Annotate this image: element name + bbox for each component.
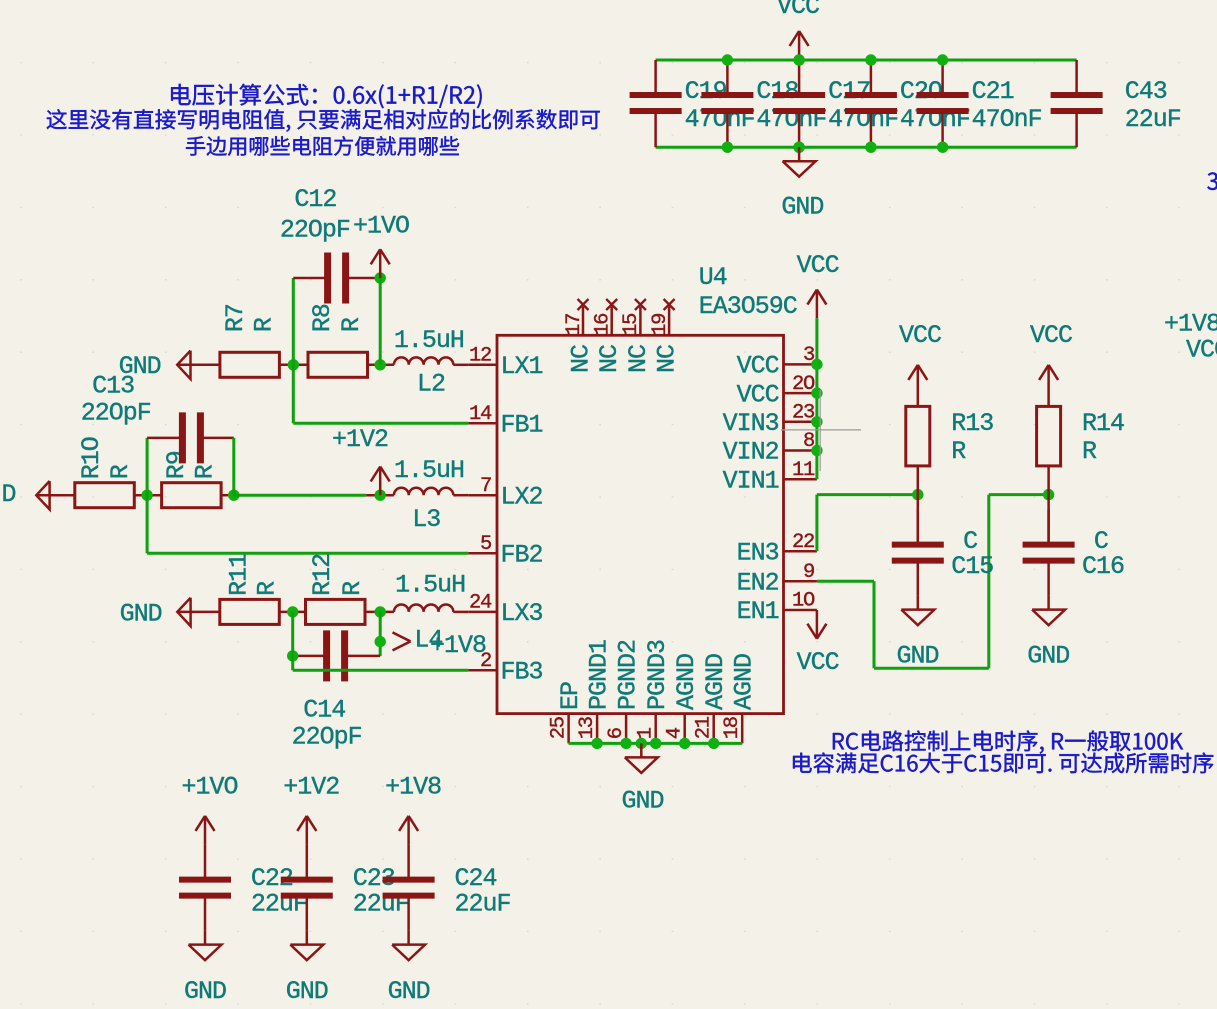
junction bbox=[811, 387, 822, 398]
resistor R10 bbox=[75, 483, 135, 508]
wire C13 branch right bbox=[232, 438, 235, 495]
wire FB2 net bbox=[146, 495, 149, 553]
svg-text:VCC: VCC bbox=[1186, 336, 1217, 365]
pin 22 EN3 bbox=[784, 550, 817, 553]
svg-text:R: R bbox=[252, 581, 281, 596]
power +1V8 bottom bbox=[407, 816, 410, 845]
pin 2 FB3 bbox=[468, 669, 497, 672]
power +1V0 bottom bbox=[204, 816, 207, 845]
junction bbox=[793, 54, 804, 65]
svg-text:EN1: EN1 bbox=[737, 597, 779, 626]
svg-text:9: 9 bbox=[803, 561, 814, 584]
capacitor C21 470nF bbox=[941, 60, 944, 95]
junction bbox=[591, 738, 602, 749]
power +1V8 arrow bbox=[393, 632, 411, 641]
svg-text:LX2: LX2 bbox=[501, 482, 543, 511]
junction bbox=[937, 54, 948, 65]
pin 16 NC bbox=[610, 307, 613, 336]
svg-text:R7: R7 bbox=[221, 304, 250, 332]
svg-text:VIN1: VIN1 bbox=[723, 466, 779, 495]
pin 23 VIN3 bbox=[784, 421, 817, 424]
svg-text:5: 5 bbox=[480, 533, 491, 556]
svg-text:R11: R11 bbox=[225, 554, 254, 596]
wire bbox=[221, 494, 234, 497]
capacitor C16 bbox=[1047, 510, 1050, 545]
svg-text:GND: GND bbox=[120, 599, 162, 628]
resistor R13 bbox=[906, 406, 930, 466]
junction node R14-C16 bbox=[1043, 489, 1054, 500]
pin 1 PGND3 bbox=[654, 714, 657, 744]
svg-text:1: 1 bbox=[634, 727, 657, 739]
svg-text:AGND: AGND bbox=[701, 654, 730, 710]
svg-text:NC: NC bbox=[624, 345, 653, 373]
ground GND row1 arrow bbox=[177, 364, 220, 367]
wire FB1 net bbox=[292, 365, 295, 424]
svg-text:EA3O59C: EA3O59C bbox=[699, 292, 797, 321]
svg-text:C14: C14 bbox=[303, 695, 345, 724]
svg-text:C43: C43 bbox=[1125, 77, 1167, 106]
svg-text:GND: GND bbox=[388, 977, 430, 1006]
svg-text:VCC: VCC bbox=[737, 380, 779, 409]
svg-text:+1V2: +1V2 bbox=[332, 425, 388, 454]
ground GND below C15 bbox=[917, 596, 920, 610]
junction bbox=[650, 738, 661, 749]
pin 8 VIN2 bbox=[784, 449, 817, 452]
svg-text:PGND2: PGND2 bbox=[613, 640, 642, 710]
svg-text:R: R bbox=[951, 437, 966, 466]
junction bbox=[708, 738, 719, 749]
pin 9 EN2 bbox=[784, 580, 817, 583]
note voltage formula line2 bbox=[47, 109, 600, 132]
svg-text:1.5uH: 1.5uH bbox=[395, 571, 465, 600]
svg-text:AGND: AGND bbox=[672, 654, 701, 710]
junction node R9 out bbox=[228, 490, 239, 501]
ground GND below C16 bbox=[1047, 596, 1050, 610]
pin 6 PGND2 bbox=[625, 714, 628, 744]
pin 15 NC bbox=[639, 307, 642, 336]
svg-text:R9: R9 bbox=[162, 451, 191, 479]
svg-text:R8: R8 bbox=[308, 304, 337, 332]
svg-text:U4: U4 bbox=[699, 263, 727, 292]
junction node R7-R8 bbox=[288, 359, 299, 370]
pin 3 VCC bbox=[784, 363, 817, 366]
svg-text:C17: C17 bbox=[828, 77, 870, 106]
svg-text:16: 16 bbox=[592, 314, 615, 336]
svg-text:PGND3: PGND3 bbox=[643, 640, 672, 710]
svg-text:22OpF: 22OpF bbox=[292, 723, 362, 752]
resistor R7 bbox=[220, 352, 280, 377]
svg-text:FB2: FB2 bbox=[501, 541, 543, 570]
power +1V0 bbox=[379, 249, 382, 278]
junction bbox=[811, 416, 822, 427]
svg-text:R1O: R1O bbox=[77, 437, 106, 479]
pin 20 VCC bbox=[784, 392, 817, 395]
svg-text:FB1: FB1 bbox=[501, 411, 543, 440]
wire C12 branch right bbox=[379, 278, 382, 365]
pin 5 FB2 bbox=[468, 552, 497, 555]
wire GND bottom rail bbox=[656, 146, 1077, 149]
wire C13 branch left bbox=[146, 438, 149, 495]
svg-text:L3: L3 bbox=[412, 505, 440, 534]
capacitor C12 220pF bbox=[293, 277, 327, 280]
svg-text:R: R bbox=[250, 317, 279, 332]
svg-text:VCC: VCC bbox=[737, 352, 779, 381]
pin 10 EN1 bbox=[784, 609, 817, 612]
resistor R9 bbox=[162, 483, 222, 508]
svg-text:R: R bbox=[338, 581, 367, 596]
junction bbox=[793, 54, 804, 65]
svg-text:C18: C18 bbox=[756, 77, 798, 106]
junction bbox=[620, 738, 631, 749]
svg-text:R: R bbox=[337, 317, 366, 332]
svg-text:AGND: AGND bbox=[729, 654, 758, 710]
svg-text:+1VO: +1VO bbox=[353, 211, 409, 240]
svg-text:21: 21 bbox=[692, 716, 715, 739]
svg-text:R: R bbox=[191, 464, 220, 479]
junction bbox=[722, 54, 733, 65]
svg-text:EN3: EN3 bbox=[737, 538, 779, 567]
svg-text:GND: GND bbox=[622, 787, 664, 816]
resistor R8 bbox=[308, 352, 368, 377]
svg-text:VCC: VCC bbox=[899, 321, 941, 350]
svg-text:LX3: LX3 bbox=[501, 599, 543, 628]
note RC timing line1 bbox=[833, 730, 1183, 753]
ground GND below C24 bbox=[407, 931, 410, 945]
svg-text:1.5uH: 1.5uH bbox=[394, 456, 464, 485]
svg-text:24: 24 bbox=[469, 592, 492, 615]
svg-text:1O: 1O bbox=[792, 590, 815, 613]
power VCC on EN1 bbox=[816, 610, 819, 639]
junction bbox=[865, 54, 876, 65]
svg-text:7: 7 bbox=[480, 475, 491, 498]
note voltage formula line3 bbox=[186, 136, 459, 156]
crosshair cursor bbox=[781, 429, 861, 431]
svg-text:C12: C12 bbox=[294, 185, 336, 214]
svg-text:C15: C15 bbox=[951, 552, 993, 581]
svg-text:22OpF: 22OpF bbox=[280, 216, 350, 245]
svg-text:NC: NC bbox=[567, 345, 596, 373]
wire bbox=[1047, 466, 1050, 542]
svg-text:22: 22 bbox=[792, 531, 814, 554]
svg-text:13: 13 bbox=[576, 717, 599, 739]
pin 12 LX1 bbox=[468, 364, 497, 367]
inductor L4 1.5uH bbox=[394, 604, 453, 611]
power VCC above pins bbox=[816, 290, 819, 319]
svg-text:EP: EP bbox=[556, 682, 585, 710]
wire EN3 to R13 node bbox=[815, 495, 818, 552]
junction node R12-L4 bbox=[375, 606, 386, 617]
power VCC top bbox=[798, 31, 801, 60]
svg-text:GND: GND bbox=[184, 977, 226, 1006]
svg-text:GND: GND bbox=[1027, 641, 1069, 670]
svg-text:19: 19 bbox=[649, 314, 672, 336]
pin 11 VIN1 bbox=[784, 478, 817, 481]
svg-text:11: 11 bbox=[792, 459, 815, 482]
power +1V2 arrow bbox=[379, 467, 382, 496]
junction node C14 left bbox=[287, 650, 298, 661]
junction node R11-R12 bbox=[287, 606, 298, 617]
svg-text:R: R bbox=[106, 464, 135, 479]
ground GND under IC bbox=[640, 743, 643, 757]
capacitor C22 22uF bbox=[204, 845, 207, 880]
svg-text:1.5uH: 1.5uH bbox=[394, 326, 464, 355]
capacitor C20 470nF bbox=[870, 60, 873, 95]
svg-text:+1VO: +1VO bbox=[182, 773, 238, 802]
wire bbox=[366, 494, 394, 497]
svg-text:+1V8: +1V8 bbox=[430, 631, 486, 660]
svg-text:22uF: 22uF bbox=[455, 890, 511, 919]
junction bbox=[679, 738, 690, 749]
svg-text:18: 18 bbox=[721, 717, 744, 739]
svg-text:C21: C21 bbox=[972, 77, 1014, 106]
power VCC above R14 bbox=[1047, 365, 1050, 407]
svg-text:VCC: VCC bbox=[797, 251, 839, 280]
wire VCC top rail bbox=[656, 59, 1077, 62]
capacitor C13 220pF bbox=[147, 437, 182, 440]
svg-text:VCC: VCC bbox=[1030, 321, 1072, 350]
pin 13 PGND1 bbox=[596, 714, 599, 744]
op-amp U4 EA3059C body bbox=[497, 335, 784, 713]
svg-text:+1V8: +1V8 bbox=[1164, 310, 1217, 339]
svg-text:+1V2: +1V2 bbox=[283, 773, 339, 802]
wire FB3 net bbox=[291, 612, 294, 670]
svg-text:D: D bbox=[2, 480, 16, 509]
junction node R10-R9 bbox=[141, 490, 152, 501]
note RC timing line2 bbox=[793, 753, 1213, 774]
wire bbox=[365, 611, 394, 614]
capacitor C19 470nF bbox=[654, 60, 657, 95]
inductor L2 1.5uH bbox=[394, 357, 453, 364]
svg-text:4: 4 bbox=[663, 727, 686, 739]
capacitor C18 470nF bbox=[726, 60, 729, 95]
pin 14 FB1 bbox=[468, 422, 497, 425]
svg-text:PGND1: PGND1 bbox=[584, 640, 613, 710]
svg-text:VCC: VCC bbox=[777, 0, 819, 21]
pin 19 NC bbox=[668, 307, 671, 336]
junction bbox=[636, 738, 647, 749]
wire bbox=[279, 364, 308, 367]
svg-text:23: 23 bbox=[792, 402, 814, 425]
wire bbox=[917, 466, 920, 542]
pin 4 AGND bbox=[683, 714, 686, 744]
pin 25 EP bbox=[567, 714, 570, 744]
wire C12 branch left bbox=[292, 278, 295, 365]
ground GND below C23 bbox=[306, 931, 309, 945]
wire ground rail under IC bbox=[569, 742, 743, 745]
svg-text:12: 12 bbox=[469, 345, 491, 368]
junction node R8-L2 bbox=[375, 359, 386, 370]
pin 7 LX2 bbox=[468, 494, 497, 497]
svg-text:EN2: EN2 bbox=[737, 568, 779, 597]
svg-text:VCC: VCC bbox=[797, 648, 839, 677]
svg-text:R: R bbox=[1082, 437, 1097, 466]
resistor R12 bbox=[306, 599, 366, 624]
capacitor C17 470nF bbox=[798, 60, 801, 95]
svg-text:LX1: LX1 bbox=[501, 352, 543, 381]
resistor R11 bbox=[220, 599, 279, 624]
pin 17 NC bbox=[582, 307, 585, 336]
svg-text:+1V8: +1V8 bbox=[385, 773, 441, 802]
svg-text:VIN3: VIN3 bbox=[723, 409, 779, 438]
svg-text:C2O: C2O bbox=[900, 77, 942, 106]
svg-text:C13: C13 bbox=[92, 372, 134, 401]
svg-text:R14: R14 bbox=[1082, 409, 1124, 438]
capacitor C15 bbox=[917, 510, 920, 545]
junction node +1V2 tap bbox=[375, 490, 386, 501]
pin 24 LX3 bbox=[468, 611, 497, 614]
pin 21 AGND bbox=[712, 714, 715, 744]
svg-text:22uF: 22uF bbox=[1125, 105, 1181, 134]
wire C14 branch right bbox=[379, 612, 382, 656]
capacitor C43 22uF bbox=[1075, 60, 1078, 95]
svg-text:GND: GND bbox=[781, 192, 823, 221]
wire bbox=[368, 364, 394, 367]
svg-text:NC: NC bbox=[595, 345, 624, 373]
wire LX2 net bbox=[234, 494, 366, 497]
svg-text:6: 6 bbox=[605, 728, 628, 739]
wire bbox=[279, 611, 305, 614]
inductor L3 1.5uH bbox=[394, 488, 453, 495]
svg-text:14: 14 bbox=[469, 403, 492, 426]
wire EN2 to R14 node bbox=[817, 580, 874, 583]
note clipped right top bbox=[1207, 172, 1217, 190]
junction bbox=[811, 359, 822, 370]
svg-text:C19: C19 bbox=[685, 77, 727, 106]
svg-text:R12: R12 bbox=[308, 554, 337, 596]
note voltage formula line1 bbox=[171, 84, 482, 108]
pin 18 AGND bbox=[741, 714, 744, 744]
ground GND below C22 bbox=[204, 931, 207, 945]
power VCC above R13 bbox=[917, 365, 920, 407]
svg-text:15: 15 bbox=[620, 314, 643, 336]
power D arrow row2 bbox=[36, 494, 75, 497]
svg-text:17: 17 bbox=[563, 314, 586, 336]
svg-text:VIN2: VIN2 bbox=[723, 438, 779, 467]
junction bbox=[811, 445, 822, 456]
resistor R14 bbox=[1037, 406, 1061, 466]
ground GND top bank bbox=[798, 147, 801, 161]
wire VCC to VIN pins bbox=[815, 318, 818, 479]
junction node C12-+1V0 bbox=[375, 272, 386, 283]
svg-text:GND: GND bbox=[286, 977, 328, 1006]
capacitor C14 220pF bbox=[293, 655, 327, 658]
svg-text:47OnF: 47OnF bbox=[972, 105, 1042, 134]
svg-text:L2: L2 bbox=[417, 370, 445, 399]
junction node +1V8 tap bbox=[375, 636, 386, 647]
svg-text:22OpF: 22OpF bbox=[81, 399, 151, 428]
junction node R13-C15 bbox=[912, 489, 923, 500]
svg-text:C16: C16 bbox=[1082, 552, 1124, 581]
capacitor C23 22uF bbox=[306, 845, 309, 880]
svg-text:25: 25 bbox=[547, 717, 570, 739]
ground GND row3 arrow bbox=[177, 611, 220, 614]
svg-text:R13: R13 bbox=[951, 409, 993, 438]
wire bbox=[134, 494, 161, 497]
power +1V2 bottom bbox=[306, 816, 309, 845]
svg-text:GND: GND bbox=[897, 641, 939, 670]
svg-text:FB3: FB3 bbox=[501, 657, 543, 686]
capacitor C24 22uF bbox=[407, 845, 410, 880]
svg-text:NC: NC bbox=[653, 345, 682, 373]
